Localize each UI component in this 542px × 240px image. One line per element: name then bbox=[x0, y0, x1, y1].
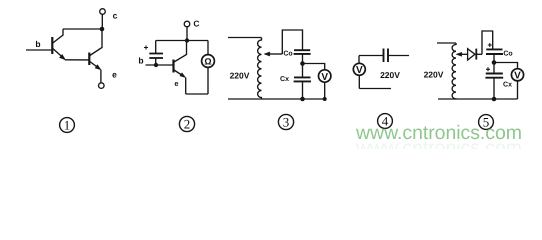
plus sign polarity bbox=[144, 46, 148, 50]
svg-text:c: c bbox=[113, 11, 118, 21]
node junction dot bottom bbox=[492, 97, 497, 102]
wire diode out bbox=[476, 53, 482, 55]
wire top lead bbox=[228, 37, 262, 39]
wire Q2 emitter to terminal bbox=[100, 70, 102, 83]
inductor winding bbox=[452, 43, 456, 99]
wire node to voltmeter bbox=[303, 64, 325, 70]
diode D triangle bbox=[468, 49, 475, 60]
wire base input bbox=[26, 49, 52, 51]
wire bottom rail bbox=[228, 98, 325, 100]
wire meter down bbox=[358, 75, 360, 88]
capacitor Co plate bottom bbox=[486, 53, 503, 55]
node junction dot meter bottom bbox=[323, 97, 327, 101]
capacitor C plate bottom bbox=[149, 57, 163, 59]
capacitor Cx plate top bbox=[486, 73, 503, 75]
terminal c circle bbox=[100, 9, 106, 15]
voltmeter circle bbox=[511, 69, 523, 81]
capacitor Co plate top bbox=[486, 48, 502, 50]
svg-text:V: V bbox=[321, 72, 328, 83]
circled number 2 bbox=[179, 116, 194, 131]
circled number 1 bbox=[60, 118, 75, 133]
svg-text:www.cntronics.com: www.cntronics.com bbox=[355, 137, 522, 149]
wire top rail bbox=[156, 40, 208, 42]
node junction dot bbox=[300, 61, 305, 66]
svg-text:220V: 220V bbox=[230, 70, 250, 80]
transistor Q emitter arrowhead bbox=[180, 73, 186, 78]
wire left down bbox=[358, 56, 360, 64]
svg-text:b: b bbox=[35, 39, 40, 49]
wire node to voltmeter bbox=[494, 63, 518, 69]
wire meter to rail bbox=[207, 41, 209, 55]
wire to collector terminal bbox=[101, 14, 103, 29]
capacitor plate right bbox=[387, 49, 389, 63]
svg-text:3: 3 bbox=[283, 115, 290, 130]
plus sign Co bbox=[488, 43, 492, 47]
transistor Q2 base bar bbox=[88, 53, 90, 66]
capacitor C plate top bbox=[149, 53, 163, 55]
capacitor Cx stem top bbox=[493, 63, 495, 74]
ohmmeter circle bbox=[202, 55, 215, 68]
node junction dot rail bbox=[185, 38, 189, 42]
wire hook up-over bbox=[482, 31, 493, 54]
wire voltmeter down bbox=[517, 81, 519, 99]
capacitor C stem bottom bbox=[155, 58, 157, 65]
transistor Q1 emitter bbox=[53, 49, 65, 60]
capacitor Cx plate top bbox=[294, 76, 311, 78]
svg-text:Co: Co bbox=[503, 51, 512, 58]
svg-text:2: 2 bbox=[184, 117, 191, 132]
transistor Q emitter bbox=[174, 70, 185, 77]
wire Co to node bbox=[493, 54, 495, 63]
wire bottom rail bbox=[438, 98, 518, 100]
svg-text:Ω: Ω bbox=[204, 56, 211, 66]
diode D cathode bar bbox=[475, 49, 477, 60]
wire top lead bbox=[437, 42, 456, 44]
terminal C circle bbox=[184, 21, 190, 27]
svg-text:Cx: Cx bbox=[280, 76, 289, 83]
wire bottom bbox=[359, 88, 391, 90]
svg-text:Cx: Cx bbox=[503, 82, 512, 89]
terminal e circle bbox=[99, 83, 105, 89]
circled number 3 bbox=[278, 114, 293, 129]
plus sign Cx bbox=[486, 67, 490, 71]
capacitor Cx plate bottom bbox=[294, 80, 311, 82]
capacitor Co plate top bbox=[294, 49, 310, 51]
wire voltmeter down bbox=[324, 82, 326, 99]
tap wire bbox=[268, 53, 282, 55]
transistor Q1 collector bbox=[53, 29, 63, 43]
capacitor Cx stem top bbox=[302, 64, 304, 78]
node junction dot base bbox=[154, 63, 158, 67]
wire Q1 emitter to Q2 base bbox=[65, 59, 89, 61]
wire top left bbox=[359, 55, 383, 57]
wire terminal C bbox=[186, 27, 188, 41]
svg-text:b: b bbox=[138, 56, 143, 66]
svg-text:e: e bbox=[174, 79, 178, 88]
transistor Q1 emitter arrowhead bbox=[59, 54, 65, 59]
svg-text:220V: 220V bbox=[380, 70, 400, 80]
capacitor plate left bbox=[383, 49, 385, 63]
capacitor Cx plate bottom bbox=[485, 77, 503, 79]
transistor Q collector bbox=[174, 41, 187, 63]
transistor Q2 emitter bbox=[90, 62, 100, 70]
inductor winding bbox=[258, 38, 262, 100]
wire top rail bbox=[63, 28, 102, 30]
wire top right bbox=[389, 55, 410, 57]
tap arrowhead bbox=[264, 52, 270, 56]
wire emitter down bbox=[185, 78, 187, 95]
wire Co to node bbox=[302, 54, 304, 64]
circled number 5 bbox=[479, 115, 494, 130]
tap arrowhead bbox=[456, 52, 462, 56]
svg-text:V: V bbox=[356, 65, 363, 76]
wire hook up-over bbox=[282, 30, 302, 54]
svg-text:C: C bbox=[193, 19, 199, 29]
tap wire bbox=[461, 53, 468, 55]
transistor Q base bar bbox=[172, 60, 174, 73]
capacitor C stem top bbox=[155, 41, 157, 54]
voltmeter circle bbox=[353, 63, 365, 75]
wire right up to meter bbox=[207, 67, 209, 94]
wire base bbox=[146, 64, 174, 66]
capacitor Co plate bottom bbox=[294, 53, 311, 55]
transistor Q2 emitter arrowhead bbox=[95, 65, 101, 70]
node junction dot bbox=[492, 60, 497, 65]
svg-text:V: V bbox=[514, 71, 521, 82]
node junction dot on rail bbox=[100, 27, 105, 32]
svg-text:1: 1 bbox=[64, 118, 71, 133]
svg-text:Co: Co bbox=[283, 51, 292, 58]
circled number 4 bbox=[378, 114, 393, 129]
wire Cx to bottom bbox=[493, 78, 495, 99]
node junction dot bottom bbox=[300, 97, 305, 102]
transistor Q1 base bar bbox=[51, 37, 53, 54]
transistor Q2 collector bbox=[90, 29, 102, 56]
wire Cx to bottom bbox=[302, 81, 304, 99]
wire bottom bbox=[186, 93, 208, 95]
voltmeter circle bbox=[319, 70, 331, 82]
svg-text:220V: 220V bbox=[424, 70, 444, 80]
svg-text:e: e bbox=[112, 70, 117, 80]
